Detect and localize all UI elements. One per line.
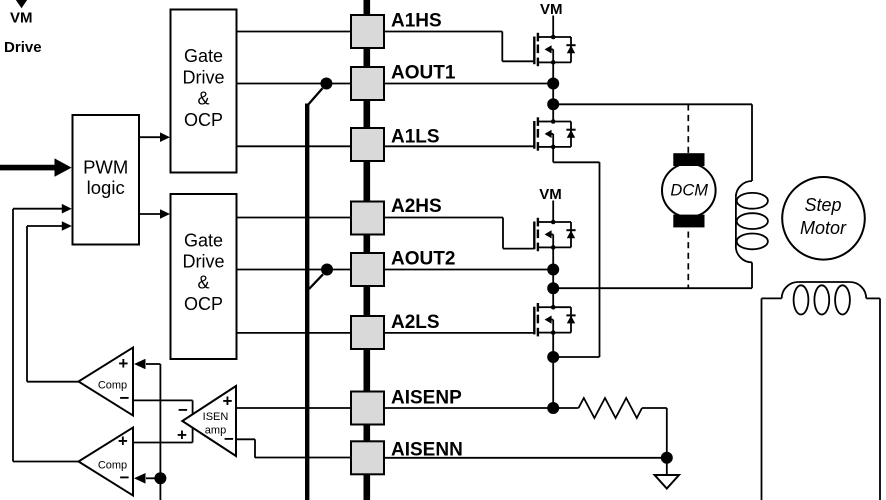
node AOUT2 branch dot bbox=[547, 282, 559, 294]
wire A1LS pin to Q2 gate bbox=[384, 145, 534, 147]
svg-text:AOUT2: AOUT2 bbox=[391, 248, 455, 269]
transistor Q2 (A low side) bbox=[534, 117, 575, 150]
wire winding bottom lead bbox=[751, 262, 753, 288]
wire A1HS pin to Q1 gate bbox=[384, 32, 534, 62]
svg-text:+: + bbox=[118, 354, 128, 373]
svg-text:A2HS: A2HS bbox=[391, 196, 442, 217]
svg-text:Gate: Gate bbox=[184, 46, 223, 66]
svg-text:Motor: Motor bbox=[800, 218, 847, 238]
transistor Q4 (B low side) bbox=[534, 303, 575, 336]
Gate Drive &amp; OCP block 1 bbox=[171, 10, 237, 173]
svg-text:Step: Step bbox=[804, 195, 841, 215]
wire VM to Q3 drain bbox=[552, 201, 554, 223]
wire resistor to ground node bbox=[642, 408, 667, 458]
step motor bbox=[782, 177, 865, 260]
wire trip-level vertical bbox=[159, 364, 161, 500]
junction dot AOUT1 switch bbox=[320, 78, 332, 90]
svg-text:AISENP: AISENP bbox=[391, 387, 462, 408]
wire arrow into comp1 + bbox=[134, 359, 160, 370]
wire Q4 source to sense node bbox=[552, 333, 554, 408]
thick feedback line bbox=[305, 104, 309, 500]
pin box AOUT2 bbox=[351, 253, 384, 286]
svg-text:A2LS: A2LS bbox=[391, 312, 440, 333]
svg-text:+: + bbox=[177, 425, 187, 444]
wire VM to Q1 drain bbox=[552, 16, 554, 38]
wire A2HS pin to Q3 gate bbox=[384, 218, 534, 249]
transistor Q3 (B high side) bbox=[534, 218, 575, 251]
wire ISEN amp - input to AISENN pin bbox=[236, 439, 351, 458]
svg-text:+: + bbox=[223, 391, 233, 410]
svg-text:−: − bbox=[120, 468, 130, 487]
svg-text:OCP: OCP bbox=[184, 294, 223, 314]
node AOUT1 dot bbox=[547, 78, 559, 90]
svg-text:+: + bbox=[118, 432, 128, 451]
transistor Q1 (A high side) bbox=[534, 33, 575, 66]
wire AOUT2 to winding bottom bbox=[553, 287, 752, 289]
comparator Comp 2 bbox=[79, 428, 134, 496]
resistor RSENSE bbox=[579, 398, 643, 418]
junction dot ground node bbox=[661, 452, 673, 464]
arrow PWM logic to Gate Drive 2 bbox=[139, 209, 170, 219]
inductor winding A bbox=[736, 181, 768, 262]
junction dot AOUT2 switch bbox=[321, 264, 333, 276]
wire AOUT2 pin to half-bridge B bbox=[384, 269, 553, 271]
arrow PWM logic to Gate Drive 1 bbox=[139, 132, 170, 142]
svg-text:ISEN: ISEN bbox=[203, 411, 229, 423]
wire AOUT1 to winding top bbox=[553, 103, 752, 105]
wire A2LS pin to Q4 gate bbox=[384, 332, 534, 334]
switch blade at AOUT1 bbox=[309, 88, 323, 104]
svg-text:VM: VM bbox=[10, 9, 33, 26]
pin box AISENN bbox=[351, 441, 384, 474]
pin box A2HS bbox=[351, 202, 384, 235]
wire Q1 source to Q2 drain bbox=[552, 62, 554, 121]
wire comp1 output to PWM logic (inner) bbox=[27, 221, 79, 382]
junction dot sense bbox=[547, 351, 559, 363]
wire sense link bbox=[553, 356, 599, 358]
svg-text:amp: amp bbox=[205, 425, 226, 437]
wire arrow into comp2 - bbox=[134, 473, 160, 484]
svg-text:OCP: OCP bbox=[184, 110, 223, 130]
svg-text:Drive: Drive bbox=[182, 67, 224, 87]
wire AOUT1 pin to half-bridge A bbox=[384, 83, 553, 85]
PWM logic block bbox=[73, 115, 140, 245]
wire winding top lead bbox=[751, 104, 753, 181]
wire Q3 source to Q4 drain bbox=[552, 247, 554, 307]
pin box AOUT1 bbox=[351, 67, 384, 100]
pin bus (thick vertical line) bbox=[363, 0, 370, 500]
thick input arrow into PWM logic bbox=[0, 158, 72, 176]
svg-text:−: − bbox=[224, 429, 234, 448]
wire Gate Drive 1 to A1LS pin bbox=[237, 145, 352, 147]
VM supply arrow (cut off at top) bbox=[15, 0, 28, 8]
wire Gate Drive 1 to A1HS pin bbox=[237, 31, 352, 33]
svg-text:&: & bbox=[197, 89, 209, 109]
pin box A1HS bbox=[351, 15, 384, 48]
svg-text:Gate: Gate bbox=[184, 231, 223, 251]
junction dot AISENP bbox=[547, 402, 559, 414]
node AOUT1 branch dot bbox=[547, 98, 559, 110]
switch blade at AOUT2 bbox=[309, 274, 323, 289]
svg-text:&: & bbox=[197, 273, 209, 293]
comparator Comp 1 bbox=[79, 348, 134, 416]
dashed wire DCM option bbox=[687, 104, 689, 288]
svg-text:Drive: Drive bbox=[182, 251, 224, 271]
junction dot comp2 input bbox=[154, 472, 166, 484]
svg-text:−: − bbox=[178, 400, 188, 419]
op-amp ISEN amp bbox=[177, 386, 236, 456]
DC motor DCM bbox=[662, 153, 716, 227]
svg-text:VM: VM bbox=[540, 1, 563, 18]
wire comp1 - to comp2 + loop bbox=[133, 400, 193, 442]
wire comp2 output to PWM logic (outer) bbox=[13, 204, 79, 462]
wire Q2 source down to sense node bbox=[599, 162, 601, 357]
wire AISENP pin to sense node bbox=[384, 407, 579, 409]
wire Gate Drive 1 to AOUT1 pin bbox=[237, 83, 352, 85]
svg-text:logic: logic bbox=[87, 177, 125, 198]
pin box A1LS bbox=[351, 128, 384, 161]
inductor winding B bbox=[762, 282, 881, 500]
wire ISEN amp + input to AISENP pin bbox=[236, 407, 351, 409]
wire AISENN pin to ground node bbox=[384, 457, 667, 459]
wire Gate Drive 2 to AOUT2 pin bbox=[237, 269, 352, 271]
wire Gate Drive 2 to A2HS pin bbox=[237, 217, 352, 219]
Gate Drive &amp; OCP block 2 bbox=[171, 194, 237, 359]
pin box AISENP bbox=[351, 392, 384, 425]
svg-text:AISENN: AISENN bbox=[391, 439, 463, 460]
svg-text:A1LS: A1LS bbox=[391, 127, 440, 148]
node AOUT2 dot bbox=[547, 264, 559, 276]
svg-text:−: − bbox=[120, 388, 130, 407]
svg-text:PWM: PWM bbox=[83, 157, 128, 178]
svg-text:Drive: Drive bbox=[4, 39, 42, 56]
svg-text:AOUT1: AOUT1 bbox=[391, 62, 456, 83]
wire Gate Drive 2 to A2LS pin bbox=[237, 332, 352, 334]
svg-text:A1HS: A1HS bbox=[391, 11, 442, 32]
ground bbox=[655, 458, 679, 489]
svg-text:VM: VM bbox=[539, 186, 562, 203]
svg-text:DCM: DCM bbox=[670, 182, 708, 200]
pin box A2LS bbox=[351, 316, 384, 349]
wire Q2 source jog bbox=[553, 147, 599, 162]
